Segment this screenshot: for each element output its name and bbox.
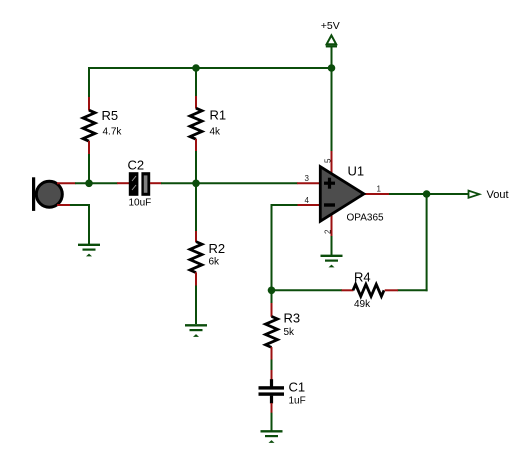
svg-text:1uF: 1uF bbox=[289, 396, 306, 407]
svg-text:R3: R3 bbox=[284, 311, 301, 326]
wire R3 to C1 bbox=[271, 360, 273, 371]
svg-text:OPA365: OPA365 bbox=[347, 213, 384, 224]
svg-text:49k: 49k bbox=[354, 299, 371, 310]
ground (op-amp pin2) bbox=[321, 256, 343, 268]
resistor R3 bbox=[266, 303, 301, 360]
svg-text:10uF: 10uF bbox=[129, 198, 152, 209]
wire mic bottom lead bbox=[70, 205, 90, 245]
ground (mic) bbox=[78, 245, 100, 257]
svg-text:2: 2 bbox=[324, 229, 333, 234]
resistor R4 bbox=[342, 270, 399, 311]
microphone MIC1 bbox=[32, 177, 76, 211]
op-amp U1 bbox=[297, 151, 390, 237]
ground (C1) bbox=[261, 431, 283, 443]
svg-text:5: 5 bbox=[324, 158, 333, 163]
wire top bus horizontal bbox=[89, 67, 332, 69]
svg-text:R2: R2 bbox=[209, 241, 226, 256]
wire left column lower (R5 to mic node) bbox=[88, 154, 90, 185]
terminal Vout bbox=[469, 189, 509, 201]
svg-text:R1: R1 bbox=[210, 108, 227, 123]
junction node (mic / R5) bbox=[85, 180, 93, 188]
resistor R1 bbox=[190, 96, 226, 152]
wire pin4 horizontal bbox=[271, 204, 298, 206]
wire pin4 column down to feedback node bbox=[271, 204, 273, 291]
wire mic top lead to C2 bbox=[75, 182, 118, 184]
svg-text:5k: 5k bbox=[284, 327, 296, 338]
wire output to Vout bbox=[389, 193, 469, 195]
wire +5V column bbox=[331, 46, 333, 152]
svg-text:R5: R5 bbox=[102, 108, 119, 123]
resistor R2 bbox=[190, 231, 225, 286]
resistor R5 bbox=[83, 97, 122, 154]
wire R1 bottom to middle node bbox=[195, 151, 197, 184]
wire R3 column upper bbox=[271, 290, 273, 303]
svg-text:4k: 4k bbox=[210, 127, 222, 138]
svg-text:4.7k: 4.7k bbox=[103, 127, 123, 138]
wire R2 to ground bbox=[195, 286, 197, 325]
svg-text:1: 1 bbox=[377, 185, 382, 194]
wire middle column (node to R2) bbox=[195, 183, 197, 232]
wire left column upper bbox=[88, 67, 90, 98]
svg-text:6k: 6k bbox=[209, 257, 221, 268]
svg-text:U1: U1 bbox=[348, 164, 365, 179]
svg-text:3: 3 bbox=[305, 174, 310, 183]
capacitor C1 bbox=[259, 370, 306, 413]
wire C2 to middle node bbox=[161, 182, 197, 184]
wire feedback node to R4 bbox=[272, 289, 343, 291]
junction node (output / feedback) bbox=[423, 190, 431, 198]
wire R4 to right vertical bbox=[398, 289, 428, 291]
svg-text:4: 4 bbox=[305, 196, 310, 205]
junction node (+5V bus corner) bbox=[328, 64, 336, 72]
svg-text:C2: C2 bbox=[128, 158, 145, 173]
junction node (C2 / R1 / R2 / pin3) bbox=[192, 180, 200, 188]
wire C1 to ground bbox=[271, 413, 273, 431]
svg-text:Vout: Vout bbox=[487, 189, 509, 201]
wire middle node to op-amp pin3 bbox=[196, 182, 298, 184]
wire feedback right vertical bbox=[426, 193, 428, 291]
junction node (R1 top) bbox=[192, 64, 200, 72]
wire middle column upper bbox=[195, 67, 197, 97]
svg-text:C1: C1 bbox=[289, 380, 306, 395]
power +5V bbox=[321, 20, 340, 46]
wire op-amp pin2 to ground bbox=[331, 236, 333, 255]
capacitor C2 bbox=[117, 158, 162, 209]
svg-text:+5V: +5V bbox=[321, 20, 340, 32]
svg-text:R4: R4 bbox=[354, 270, 371, 285]
junction node (feedback / R3) bbox=[268, 287, 276, 295]
ground (R2) bbox=[185, 325, 207, 337]
